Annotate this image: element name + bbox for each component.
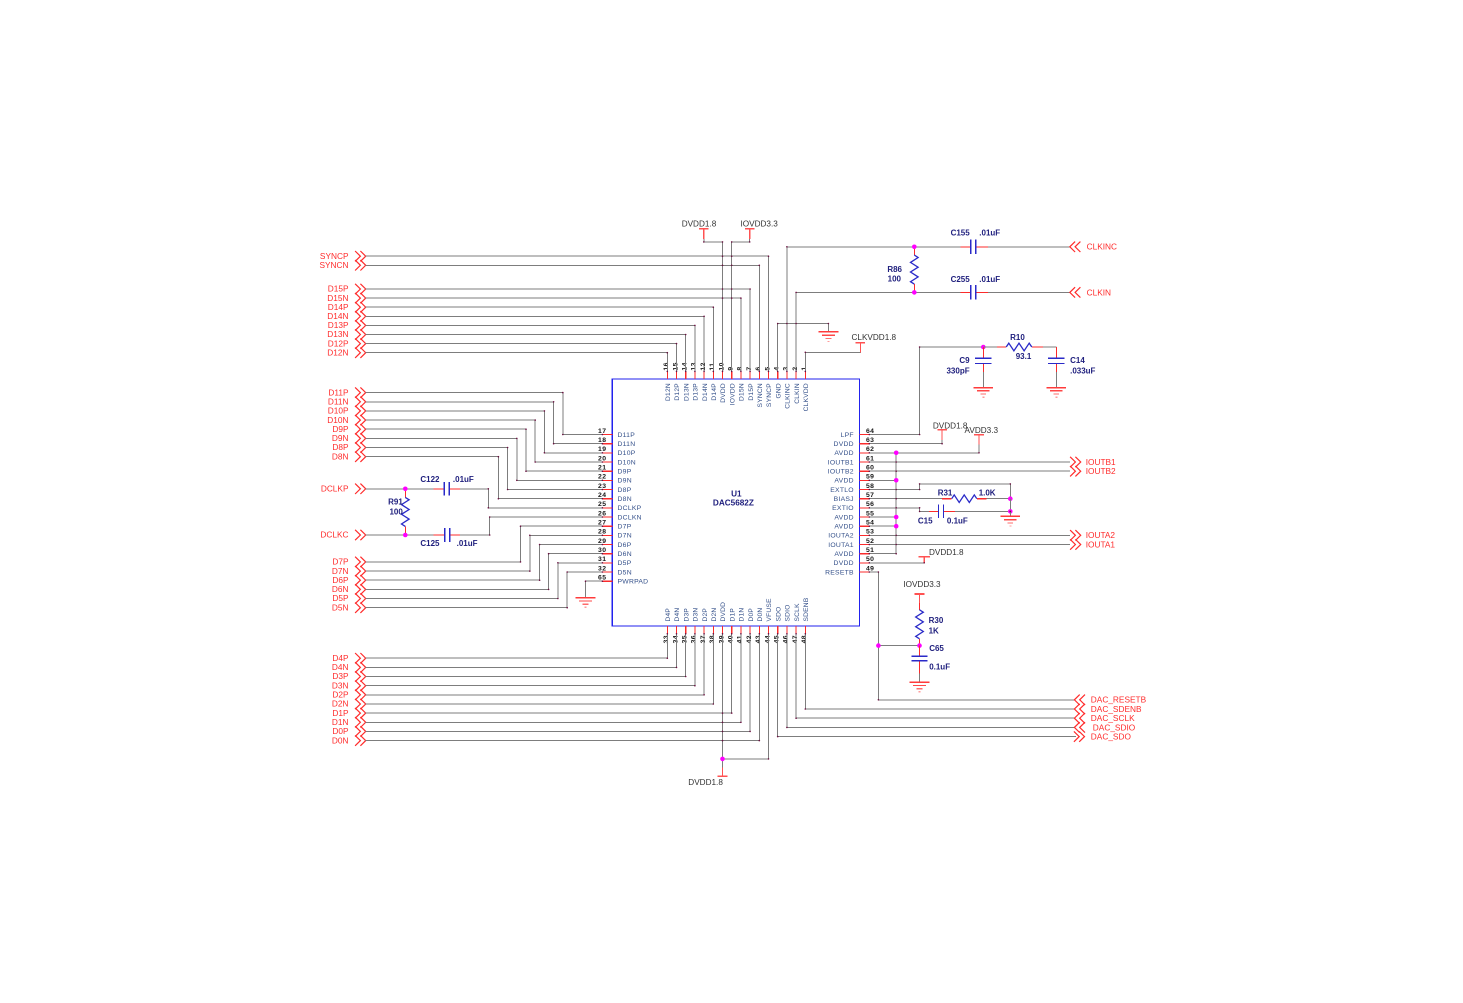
wire CLKIN from pin 2 [796, 292, 960, 371]
port D0P [332, 726, 365, 737]
power IOVDD3.3 top [741, 219, 779, 238]
wire BIASJ pin 57 [869, 498, 942, 500]
svg-text:60: 60 [866, 465, 874, 472]
svg-text:DAC_SDO: DAC_SDO [1091, 732, 1132, 742]
svg-text:53: 53 [866, 529, 874, 536]
port D15N [327, 293, 365, 304]
junction AVDD 55 [894, 515, 899, 520]
port D4P [332, 653, 365, 664]
port D2P [332, 690, 365, 701]
capacitor C125 [420, 528, 477, 548]
capacitor C65 [911, 644, 950, 674]
capacitor C122 [420, 475, 474, 496]
svg-text:DVDD1.8: DVDD1.8 [929, 548, 964, 557]
svg-text:R10: R10 [1010, 333, 1025, 342]
pin 4 (GND) top [774, 366, 783, 398]
svg-text:R31: R31 [938, 489, 953, 498]
port D7N [332, 566, 366, 577]
wire D6P [366, 545, 603, 581]
wire D13P [366, 325, 695, 371]
capacitor C14 [1048, 347, 1096, 376]
pin 55 (AVDD) right [834, 510, 874, 521]
svg-text:D11P: D11P [618, 432, 636, 439]
svg-text:DCLKC: DCLKC [320, 530, 348, 540]
svg-text:C125: C125 [420, 539, 440, 548]
pin 40 (D1P) bottom [728, 608, 737, 644]
svg-text:DAC5682Z: DAC5682Z [713, 499, 754, 508]
svg-text:58: 58 [866, 483, 874, 490]
port D14N [327, 311, 365, 322]
wire LPF pin 64 [869, 347, 983, 435]
wire D3P [366, 634, 686, 677]
wire DAC_SCLK [796, 634, 1074, 718]
svg-text:2: 2 [792, 366, 799, 370]
wire DCLKC [366, 534, 434, 536]
svg-text:CLKIN: CLKIN [794, 383, 801, 404]
svg-text:55: 55 [866, 510, 874, 517]
wire D9N [366, 438, 603, 480]
pin 46 (SDIO) bottom [783, 604, 792, 643]
pin 34 (D4N) bottom [672, 608, 681, 644]
ground at pin 4 [819, 331, 839, 333]
svg-text:C155: C155 [951, 229, 971, 238]
svg-text:93.1: 93.1 [1016, 352, 1032, 361]
pin 20 (D10N) left [598, 455, 636, 466]
pin 49 (RESETB) right [825, 565, 874, 576]
IC U1 DAC5682Z body [612, 379, 859, 626]
junction R30 node [917, 643, 922, 648]
port IOUTB2 [1070, 466, 1116, 476]
pin 41 (D1N) bottom [737, 608, 746, 644]
svg-text:C65: C65 [929, 644, 944, 653]
svg-text:39: 39 [718, 635, 725, 643]
pin 25 (DCLKP) left [598, 501, 642, 512]
svg-text:.01uF: .01uF [979, 275, 1000, 284]
svg-text:RESETB: RESETB [825, 569, 854, 576]
svg-text:AVDD: AVDD [834, 524, 853, 531]
pin 37 (D2P) bottom [700, 608, 709, 644]
wire AVDD pin 55 [869, 516, 896, 518]
svg-text:44: 44 [764, 635, 771, 643]
svg-text:61: 61 [866, 455, 874, 462]
capacitor C155 [951, 229, 1001, 255]
wire C15 to node [955, 499, 1010, 512]
svg-text:D5P: D5P [618, 560, 632, 567]
svg-text:DVDD: DVDD [720, 602, 727, 622]
port DAC_SDIO [1074, 722, 1135, 732]
wire SYNCN [366, 265, 760, 371]
wire AVDD pin 54 [869, 525, 896, 527]
wire D10N [366, 420, 603, 462]
wire DVDD pin 63 [869, 440, 942, 444]
wire D3N [366, 634, 695, 686]
port D6P [332, 575, 365, 586]
svg-text:33: 33 [663, 635, 670, 643]
wire DCLKP [366, 488, 434, 490]
svg-text:D7P: D7P [618, 524, 632, 531]
svg-text:IOVDD3.3: IOVDD3.3 [741, 219, 779, 228]
pin 28 (D7N) left [598, 529, 632, 540]
resistor R91 [388, 489, 409, 535]
svg-text:SYNCP: SYNCP [766, 383, 773, 407]
svg-text:48: 48 [801, 635, 808, 643]
port D15P [328, 284, 366, 295]
svg-text:16: 16 [663, 362, 670, 370]
svg-text:AVDD: AVDD [834, 478, 853, 485]
port SYNCP [320, 251, 366, 262]
pin 21 (D9P) left [598, 465, 632, 476]
resistor R10 [997, 333, 1043, 361]
port D3P [332, 671, 365, 682]
wire IOVDD3.3 to pin 9 [732, 239, 750, 372]
svg-text:D15N: D15N [739, 383, 746, 401]
wire DAC_SDO [778, 634, 1076, 737]
port DAC_SDENB [1074, 704, 1142, 714]
port D9N [332, 433, 366, 444]
junction C15 node [1008, 509, 1013, 514]
svg-text:D3N: D3N [693, 608, 700, 622]
svg-text:42: 42 [746, 635, 753, 643]
svg-text:VFUSE: VFUSE [766, 598, 773, 622]
wire DAC_SDIO [787, 634, 1075, 728]
wire DAC_SDENB [805, 634, 1074, 709]
junction R91 top [403, 487, 408, 492]
svg-text:AVDD: AVDD [834, 551, 853, 558]
pin 26 (DCLKN) left [598, 510, 642, 521]
svg-text:57: 57 [866, 492, 874, 499]
junction AVDD 62 [894, 451, 899, 456]
svg-text:D8P: D8P [618, 487, 632, 494]
wire D6N [366, 554, 603, 590]
svg-text:64: 64 [866, 428, 874, 435]
wire DVDD pin 39 [722, 634, 724, 768]
svg-text:10: 10 [718, 362, 725, 370]
pin 54 (AVDD) right [834, 520, 874, 531]
port D1P [332, 708, 365, 719]
svg-text:SDO: SDO [775, 606, 782, 621]
svg-text:1: 1 [801, 366, 808, 370]
wire AVDD pin 59 [869, 479, 896, 481]
wire D0N [366, 634, 760, 741]
svg-text:40: 40 [728, 635, 735, 643]
wire CLKINC to port [988, 246, 1070, 248]
svg-text:D12N: D12N [665, 383, 672, 401]
svg-text:D13P: D13P [693, 383, 700, 401]
power AVDD3.3 at pin 62 [965, 426, 999, 445]
svg-text:D1P: D1P [729, 608, 736, 622]
svg-text:8: 8 [737, 366, 744, 370]
wire DVDD pin 50 [869, 557, 924, 563]
svg-text:3: 3 [783, 366, 790, 370]
pin 3 (CLKINC) top [783, 366, 792, 408]
junction R31 node [1008, 496, 1013, 501]
port DCLKC [320, 530, 365, 541]
svg-text:D3P: D3P [683, 608, 690, 622]
port D1N [332, 717, 366, 728]
port D0N [332, 735, 366, 746]
port D7P [332, 557, 365, 568]
ground at PWRPAD [576, 597, 596, 599]
ground at R31/C15 [1000, 515, 1020, 517]
svg-text:9: 9 [728, 366, 735, 370]
wire D15N [366, 298, 741, 371]
svg-text:52: 52 [866, 538, 874, 545]
svg-text:D15P: D15P [748, 383, 755, 401]
pin 43 (D0N) bottom [755, 608, 764, 644]
wire CLKVDD to pin 1 [805, 352, 860, 371]
power CLKVDD1.8 [852, 333, 897, 353]
svg-text:100: 100 [888, 275, 902, 284]
wire VFUSE pin 44 [723, 634, 769, 759]
wire R31 to node [986, 498, 1010, 500]
pin 5 (SYNCP) top [764, 366, 773, 407]
port D8N [332, 451, 366, 462]
pin 15 (D12P) top [672, 362, 681, 400]
svg-text:62: 62 [866, 446, 874, 453]
svg-text:D7N: D7N [618, 533, 632, 540]
svg-text:D6P: D6P [618, 542, 632, 549]
wire R30 C65 to RESETB [878, 645, 919, 647]
svg-text:C255: C255 [951, 275, 971, 284]
svg-text:D2N: D2N [711, 608, 718, 622]
pin 19 (D10P) left [598, 446, 636, 457]
svg-text:R91: R91 [388, 498, 403, 507]
port IOUTA1 [1070, 539, 1115, 549]
pin 62 (AVDD) right [834, 446, 874, 457]
svg-text:IOUTB2: IOUTB2 [828, 469, 854, 476]
port D12P [328, 338, 366, 349]
wire D12P [366, 344, 677, 372]
svg-text:51: 51 [866, 547, 874, 554]
wire D7P [366, 526, 603, 562]
svg-text:D6N: D6N [618, 551, 632, 558]
pin 56 (EXTIO) right [832, 501, 874, 512]
pin 22 (D9N) left [598, 474, 632, 485]
svg-text:D13N: D13N [683, 383, 690, 401]
svg-text:U1: U1 [731, 490, 742, 499]
port CLKIN [1070, 287, 1111, 297]
svg-text:56: 56 [866, 501, 874, 508]
port D13P [328, 320, 366, 331]
wire C9 to ground [982, 372, 984, 388]
wire R10 to C14 [1043, 346, 1056, 348]
svg-text:D10P: D10P [618, 450, 636, 457]
svg-text:GND: GND [775, 383, 782, 398]
svg-text:.01uF: .01uF [453, 475, 474, 484]
svg-text:DVDD1.8: DVDD1.8 [682, 219, 717, 228]
pin 58 (EXTLO) right [830, 483, 874, 494]
wire D0P [366, 634, 750, 732]
svg-text:IOUTA2: IOUTA2 [828, 533, 854, 540]
pin 6 (SYNCN) top [755, 366, 764, 407]
pin 59 (AVDD) right [834, 474, 874, 485]
svg-text:CLKVDD1.8: CLKVDD1.8 [852, 333, 897, 342]
wire D7N [366, 535, 603, 571]
svg-text:SYNCN: SYNCN [757, 383, 764, 407]
wire D4N [366, 634, 677, 668]
svg-text:C122: C122 [420, 475, 440, 484]
port DAC_SCLK [1074, 713, 1135, 723]
pin 31 (D5P) left [598, 556, 632, 567]
svg-text:D10N: D10N [618, 459, 636, 466]
wire EXTIO pin 56 [869, 508, 929, 512]
wire D5N [366, 572, 603, 608]
pin 33 (D4P) bottom [663, 608, 672, 644]
port D14P [328, 302, 366, 313]
wire D15P [366, 289, 750, 371]
svg-text:IOUTB1: IOUTB1 [828, 459, 854, 466]
ground at C65 [910, 681, 930, 683]
svg-text:35: 35 [682, 635, 689, 643]
svg-text:SDENB: SDENB [803, 597, 810, 621]
wire D8N [366, 457, 603, 499]
svg-text:D5N: D5N [332, 602, 349, 612]
svg-text:DVDD: DVDD [720, 383, 727, 403]
svg-text:D14N: D14N [702, 383, 709, 401]
svg-text:AVDD3.3: AVDD3.3 [965, 426, 999, 435]
svg-text:47: 47 [792, 635, 799, 643]
pin 39 (DVDD) bottom [718, 602, 727, 644]
junction LPF node [981, 345, 986, 350]
port D11P [328, 387, 365, 398]
svg-text:D8N: D8N [332, 451, 349, 461]
pin 50 (DVDD) right [834, 556, 875, 567]
wire D14N [366, 316, 704, 371]
wire D9P [366, 429, 603, 471]
wire GND pin 4 [778, 324, 829, 372]
wire DCLKC to pin 26 [460, 517, 602, 535]
svg-text:D8N: D8N [618, 496, 632, 503]
junction AVDD 59 [894, 478, 899, 483]
port D5N [332, 602, 366, 613]
pin 13 (D13P) top [691, 362, 700, 400]
port DAC_RESETB [1074, 695, 1146, 705]
svg-text:.01uF: .01uF [457, 539, 478, 548]
port CLKINC [1070, 242, 1117, 252]
svg-text:13: 13 [691, 362, 698, 370]
wire IOUTB2 [869, 470, 1070, 472]
svg-text:DVDD1.8: DVDD1.8 [933, 421, 968, 430]
svg-text:45: 45 [774, 635, 781, 643]
port D12N [327, 347, 365, 358]
svg-text:DVDD1.8: DVDD1.8 [688, 778, 723, 787]
pin 2 (CLKIN) top [792, 366, 801, 403]
svg-text:LPF: LPF [841, 432, 854, 439]
svg-text:D9N: D9N [618, 478, 632, 485]
resistor R31 [938, 489, 996, 503]
svg-text:49: 49 [866, 565, 874, 572]
pin 53 (IOUTA2) right [828, 529, 874, 540]
power IOVDD3.3 at R30 [903, 580, 941, 604]
wire D13N [366, 335, 686, 372]
ground at C9 [973, 387, 993, 389]
pin 14 (D13N) top [682, 362, 691, 401]
svg-text:34: 34 [672, 635, 679, 643]
wire D1N [366, 634, 741, 723]
pin 36 (D3N) bottom [691, 608, 700, 644]
svg-text:D0N: D0N [757, 608, 764, 622]
wire IOUTA1 [869, 544, 1070, 546]
power DVDD1.8 at pin 50 [918, 548, 964, 563]
pin 30 (D6N) left [598, 547, 632, 558]
pin 57 (BIASJ) right [834, 492, 875, 503]
svg-text:IOUTB2: IOUTB2 [1086, 466, 1116, 476]
svg-text:IOVDD3.3: IOVDD3.3 [903, 580, 941, 589]
power DVDD1.8 at pin 63 [933, 421, 968, 440]
svg-text:AVDD: AVDD [834, 450, 853, 457]
wire RESETB pin 49 [869, 572, 1074, 700]
port DCLKP [321, 484, 366, 495]
pin 17 (D11P) left [598, 428, 635, 439]
pin 24 (D8N) left [598, 492, 632, 503]
junction DVDD bottom [720, 757, 725, 762]
svg-text:0.1uF: 0.1uF [929, 662, 950, 671]
port SYNCN [319, 260, 365, 271]
port D2N [332, 699, 366, 710]
wire node to ground [1009, 511, 1011, 516]
wire crossing and corner dots [488, 241, 1012, 760]
junction R86 top [912, 245, 917, 250]
power DVDD1.8 bottom [688, 767, 727, 787]
svg-text:54: 54 [866, 520, 874, 527]
wire CLKIN to port [988, 291, 1070, 293]
pin 48 (SDENB) bottom [801, 597, 810, 643]
wire D4P [366, 634, 668, 658]
svg-text:36: 36 [691, 635, 698, 643]
wire DCLKP to pin 25 [460, 489, 602, 508]
port D10P [328, 406, 366, 417]
svg-text:14: 14 [682, 362, 689, 370]
wire IOUTB1 [869, 461, 1070, 463]
wire EXTLO pin 58 [869, 484, 1010, 499]
port D4N [332, 662, 366, 673]
svg-text:EXTIO: EXTIO [832, 505, 854, 512]
port D5P [332, 593, 365, 604]
svg-text:D4P: D4P [665, 608, 672, 622]
wire DVDD1.8 to pin 10 [704, 239, 723, 372]
port D8P [332, 442, 365, 453]
pin 64 (LPF) right [841, 428, 875, 439]
svg-text:46: 46 [783, 635, 790, 643]
svg-text:SYNCN: SYNCN [319, 260, 348, 270]
svg-text:50: 50 [866, 556, 874, 563]
svg-text:7: 7 [746, 366, 753, 370]
svg-text:SCLK: SCLK [794, 603, 801, 622]
svg-text:DVDD: DVDD [834, 560, 854, 567]
svg-text:R30: R30 [929, 616, 944, 625]
svg-text:C9: C9 [959, 356, 970, 365]
svg-text:DCLKP: DCLKP [618, 505, 642, 512]
svg-text:63: 63 [866, 437, 874, 444]
junction RESETB node [876, 643, 881, 648]
wire D14P [366, 307, 714, 371]
svg-text:D5N: D5N [618, 569, 632, 576]
pin 27 (D7P) left [598, 520, 632, 531]
svg-text:CLKINC: CLKINC [1087, 242, 1117, 252]
svg-text:4: 4 [774, 366, 781, 370]
wire SYNCP [366, 256, 769, 371]
port IOUTB1 [1070, 457, 1116, 467]
svg-text:15: 15 [672, 362, 679, 370]
pin 1 (CLKVDD) top [801, 366, 810, 411]
svg-text:5: 5 [764, 366, 771, 370]
svg-text:DVDD: DVDD [834, 441, 854, 448]
wire IOUTA2 [869, 534, 1070, 536]
svg-text:D14P: D14P [711, 383, 718, 401]
pin 9 (IOVDD) top [728, 366, 737, 405]
pin 52 (IOUTA1) right [828, 538, 874, 549]
svg-text:D9P: D9P [618, 469, 632, 476]
